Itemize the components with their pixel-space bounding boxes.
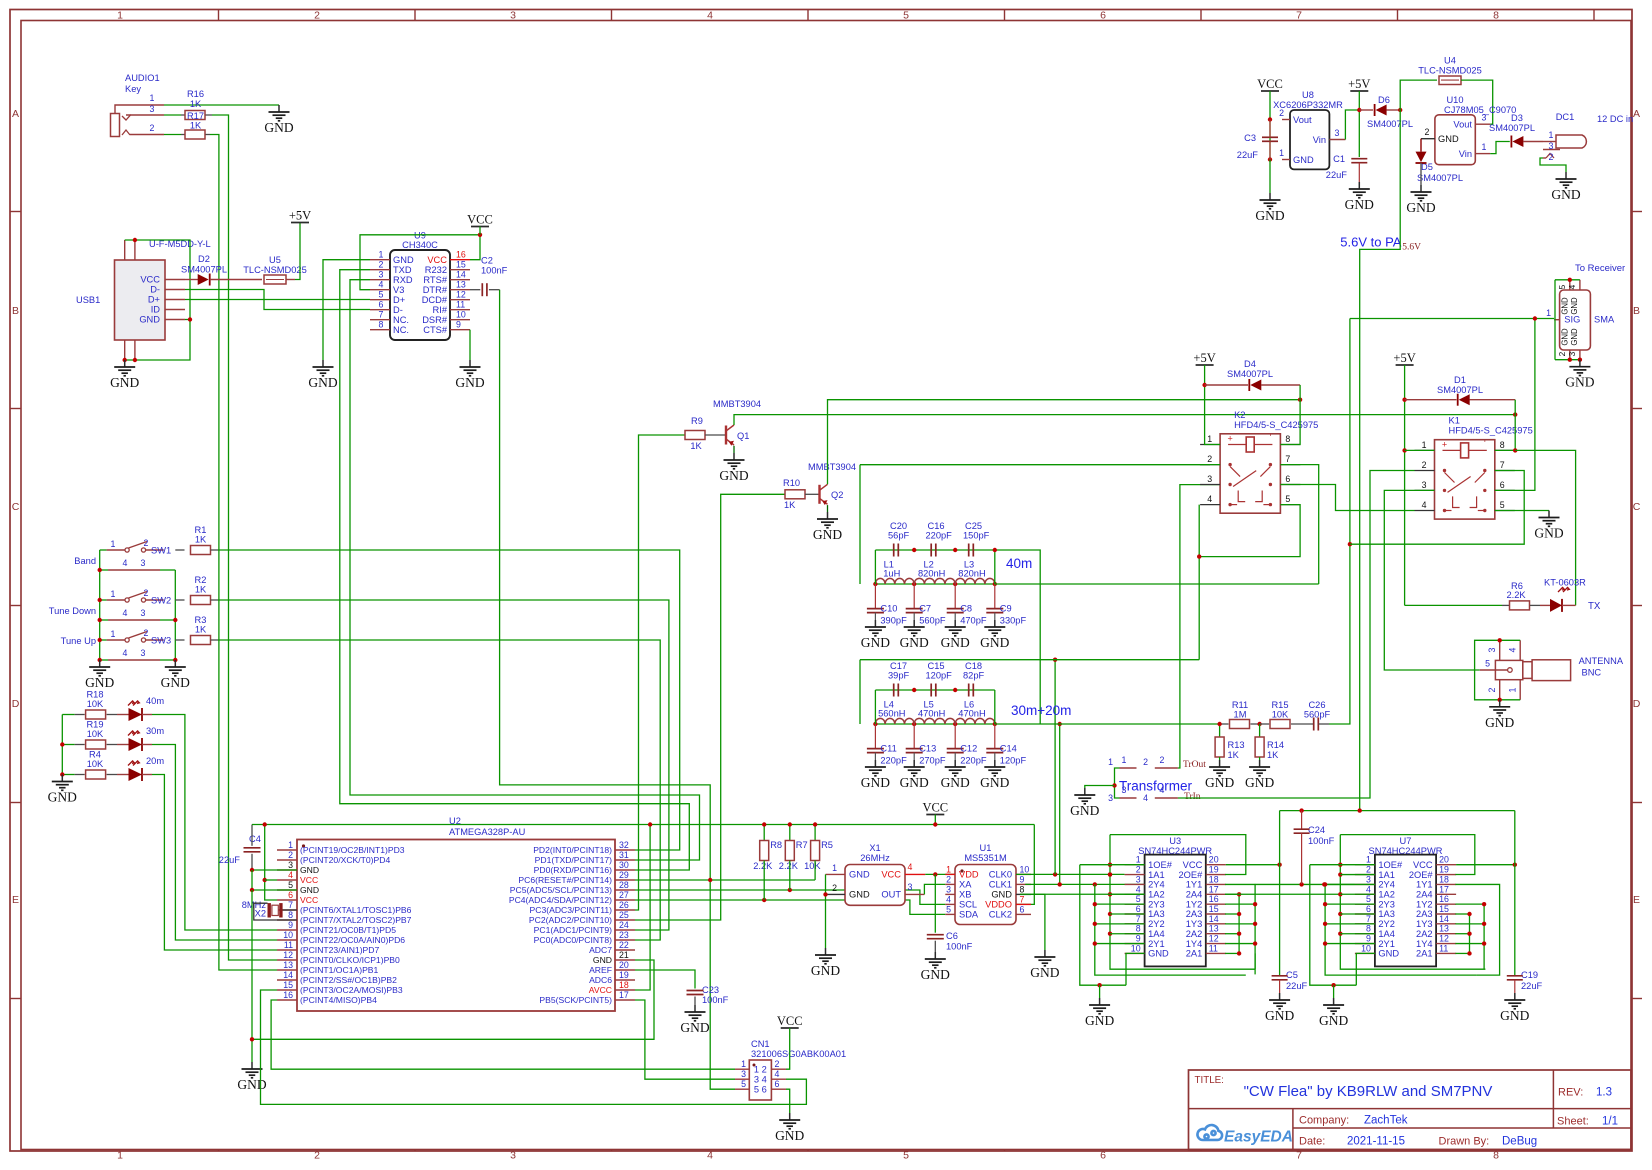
svg-text:2Y2: 2Y2 [1148,919,1165,929]
wire U4 to U10 Vout [1461,80,1493,124]
wire U10 Vin to D3 [1490,142,1510,154]
ground U9 pin1 [322,360,324,367]
ground C23 [694,1005,696,1012]
svg-text:16: 16 [283,990,293,1000]
svg-text:1.3: 1.3 [1596,1087,1612,1099]
inductor L5 [914,718,955,724]
svg-text:5: 5 [1500,500,1505,510]
svg-text:R9: R9 [691,416,703,426]
wire K2 pin4 to filter input [1198,505,1200,660]
svg-text:GND: GND [1245,775,1274,790]
wire U3 enable bus [1080,865,1126,986]
svg-text:5: 5 [946,904,951,914]
svg-text:4: 4 [1143,793,1148,803]
svg-text:321006SG0ABK00A01: 321006SG0ABK00A01 [751,1049,846,1059]
svg-text:C3: C3 [1244,133,1256,143]
wire 30m right riser [994,690,996,724]
svg-text:C5: C5 [1286,970,1298,980]
svg-text:GND: GND [237,1077,266,1092]
svg-text:C25: C25 [965,521,982,531]
svg-text:(PCINT23/AIN1)PD7: (PCINT23/AIN1)PD7 [300,945,379,955]
wire K1 pin7 to receiver tap [1350,471,1524,545]
svg-text:GND: GND [1378,949,1399,959]
wire K2 pin2 from filter [1200,464,1220,466]
ground K1 pin5 [1548,511,1550,518]
svg-text:7: 7 [1296,10,1302,22]
wire K1 pin8 to TX led [1515,450,1575,605]
svg-text:6: 6 [1285,474,1290,484]
wire 40m top row extension [995,550,1040,724]
svg-text:B: B [12,305,19,317]
svg-text:3: 3 [1207,474,1212,484]
svg-text:RI#: RI# [433,305,448,315]
svg-text:AUDIO1: AUDIO1 [125,73,160,83]
svg-text:8: 8 [1493,10,1499,22]
wire U7 output bus [1325,884,1476,975]
svg-text:VCC: VCC [777,1014,803,1028]
svg-text:1A3: 1A3 [1378,909,1395,919]
svg-text:C1: C1 [1333,154,1345,164]
wire U7 gnd pin10 [1356,953,1375,985]
svg-text:GND: GND [1565,375,1594,390]
wire U3 right bus a [1238,894,1240,954]
svg-text:GND: GND [849,890,870,900]
svg-text:(PCINT21/OC0B/T1)PD5: (PCINT21/OC0B/T1)PD5 [300,925,396,935]
wire K1 pin6 to SMA [1495,319,1535,491]
svg-text:3: 3 [288,860,293,870]
svg-text:10K: 10K [1272,710,1289,720]
svg-text:24: 24 [619,920,629,930]
svg-text:Band: Band [74,556,96,566]
svg-text:16: 16 [1439,894,1449,904]
svg-text:29: 29 [619,870,629,880]
svg-text:DTR#: DTR# [423,285,448,295]
wire USB GND pin to shield [185,319,190,321]
svg-text:VCC: VCC [1257,77,1283,91]
svg-text:PC2(ADC2/PCINT10): PC2(ADC2/PCINT10) [529,915,612,925]
svg-text:GND: GND [139,315,160,325]
wire USB shield loop [125,240,190,360]
svg-text:2A4: 2A4 [1186,889,1203,899]
svg-text:GND: GND [1148,949,1169,959]
svg-text:GND: GND [1030,965,1059,980]
svg-text:11: 11 [456,300,465,310]
svg-text:100nF: 100nF [1308,836,1335,846]
svg-text:11: 11 [1439,943,1448,953]
capacitor C13 [913,724,915,749]
switch SW3 lower contact [108,659,160,661]
svg-text:17: 17 [1439,884,1449,894]
svg-text:PC5(ADC5/SCL/PCINT13): PC5(ADC5/SCL/PCINT13) [510,885,612,895]
svg-text:R232: R232 [425,265,447,275]
svg-text:3: 3 [1482,113,1487,123]
svg-text:2: 2 [1136,865,1141,875]
svg-text:Tune Up: Tune Up [61,636,96,646]
wire K1 pin5 to ground [1495,510,1549,512]
wire 30m input from K2 pins 4 5 [859,660,861,724]
svg-text:5: 5 [288,880,293,890]
ground switches right [174,660,176,667]
svg-text:3: 3 [1122,785,1127,795]
svg-text:NC.: NC. [393,315,409,325]
svg-text:GND: GND [861,775,890,790]
led 40m R18 [117,714,129,716]
svg-text:6: 6 [288,890,293,900]
svg-text:3 4: 3 4 [754,1075,767,1085]
svg-text:5: 5 [1285,494,1290,504]
svg-text:56pF: 56pF [888,531,910,541]
wire MCU PC2 to R10 [635,494,785,920]
svg-text:20: 20 [1209,855,1219,865]
wire reset to CN1 pin5 [710,880,735,1089]
svg-text:1K: 1K [690,441,702,451]
svg-text:4: 4 [707,10,713,22]
svg-text:Q1: Q1 [737,431,749,441]
svg-text:NC.: NC. [393,325,409,335]
svg-text:1: 1 [111,539,116,549]
svg-text:8: 8 [1285,434,1290,444]
svg-text:2: 2 [314,1150,320,1162]
svg-text:1: 1 [117,1150,123,1162]
svg-text:SW1: SW1 [151,546,171,556]
svg-text:GND: GND [1085,1013,1114,1028]
svg-text:R13: R13 [1228,740,1245,750]
svg-text:AVCC: AVCC [589,985,612,995]
svg-text:12: 12 [1439,934,1449,944]
capacitor C11 [874,724,876,749]
svg-text:2: 2 [946,874,951,884]
svg-text:1K: 1K [1228,750,1240,760]
svg-text:1: 1 [1549,130,1554,140]
svg-text:DSR#: DSR# [422,315,448,325]
svg-text:(PCINT0/CLKO/ICP1)PB0: (PCINT0/CLKO/ICP1)PB0 [300,955,400,965]
svg-text:D+: D+ [148,295,160,305]
svg-text:1: 1 [288,840,293,850]
svg-text:VCC: VCC [427,255,447,265]
svg-text:2: 2 [1425,127,1430,137]
ground C14 [994,760,996,767]
svg-text:2Y3: 2Y3 [1148,899,1165,909]
wire 40m right riser [994,550,996,584]
svg-text:4: 4 [1160,785,1165,795]
svg-text:K1: K1 [1449,416,1460,426]
svg-text:7: 7 [1366,914,1371,924]
svg-text:RXD: RXD [393,275,413,285]
svg-text:CH340C: CH340C [402,240,438,250]
svg-text:18: 18 [619,980,629,990]
svg-text:PD0(RXD/PCINT16): PD0(RXD/PCINT16) [534,865,612,875]
ground R14 [1259,760,1261,767]
svg-text:220pF: 220pF [926,531,953,541]
svg-text:Vin: Vin [1313,135,1326,145]
wire MCU MISO to CN1 pin1 [271,1000,735,1069]
svg-text:SMA: SMA [1594,315,1615,325]
svg-text:1Y1: 1Y1 [1416,880,1433,890]
svg-text:1M: 1M [1234,710,1247,720]
wire U8 gnd down [1269,160,1271,194]
svg-text:(PCINT3/OC2A/MOSI)PB3: (PCINT3/OC2A/MOSI)PB3 [300,985,403,995]
svg-text:GND: GND [921,967,950,982]
svg-text:Q2: Q2 [831,490,843,500]
svg-text:(PCINT4/MISO)PB4: (PCINT4/MISO)PB4 [300,995,377,1005]
svg-text:14: 14 [456,270,466,280]
svg-text:8: 8 [1366,924,1371,934]
svg-text:1: 1 [1108,757,1113,767]
wire VCC rail above MCU [252,824,1034,826]
ground U7 [1333,998,1335,1005]
svg-text:D-: D- [393,305,403,315]
svg-text:3: 3 [1136,874,1141,884]
svg-text:12 DC in: 12 DC in [1597,114,1633,124]
svg-text:100nF: 100nF [481,266,508,276]
svg-text:470pF: 470pF [960,616,987,626]
wire U7 right bus a [1469,914,1471,954]
svg-text:D+: D+ [393,295,405,305]
svg-text:ANTENNA: ANTENNA [1579,656,1624,666]
svg-text:C6: C6 [946,931,958,941]
svg-text:PC4(ADC4/SDA/PCINT12): PC4(ADC4/SDA/PCINT12) [509,895,612,905]
ground below MCU [251,1062,253,1069]
svg-text:1: 1 [1508,687,1518,692]
wire U7 gnd flag drop [1333,985,1335,998]
svg-text:18: 18 [1439,874,1449,884]
svg-text:2: 2 [379,260,384,270]
svg-text:SM4007PL: SM4007PL [1437,385,1483,395]
svg-text:C8: C8 [960,604,972,614]
svg-text:11: 11 [1209,943,1218,953]
svg-text:1A3: 1A3 [1148,909,1165,919]
svg-text:26MHz: 26MHz [860,853,890,863]
svg-text:5: 5 [1136,894,1141,904]
svg-text:150pF: 150pF [963,531,990,541]
svg-text:9: 9 [1366,934,1371,944]
svg-text:VCC: VCC [1183,860,1203,870]
svg-text:R2: R2 [195,575,207,585]
wire X1 VCC to U1 VDD [925,873,955,875]
svg-text:D-: D- [150,285,160,295]
easyeda logo [1197,1125,1222,1140]
svg-text:C26: C26 [1308,700,1325,710]
svg-text:22uF: 22uF [1286,981,1308,991]
svg-text:2: 2 [1557,351,1567,356]
svg-text:SCL: SCL [959,900,977,910]
svg-text:+5V: +5V [1193,351,1215,365]
wire C4 to MCU gnd pins [252,869,297,871]
svg-text:7: 7 [379,310,384,320]
wire 30m series cap row [875,689,994,691]
svg-text:4: 4 [123,608,128,618]
svg-text:SDA: SDA [959,910,979,920]
svg-text:+5V: +5V [1348,77,1370,91]
svg-text:MMBT3904: MMBT3904 [713,399,761,409]
svg-text:SW2: SW2 [151,596,171,606]
svg-text:5: 5 [1557,284,1567,289]
svg-text:19: 19 [619,970,629,980]
svg-text:23: 23 [619,930,629,940]
ground BNC [1499,700,1501,707]
svg-text:2A3: 2A3 [1416,909,1433,919]
svg-text:U9: U9 [414,231,426,241]
ground U8 [1269,193,1271,200]
wire 40m inductor row [875,583,994,585]
svg-text:CJ78M05_C9070: CJ78M05_C9070 [1444,105,1516,115]
wire K1 pin1 coil [1405,449,1435,451]
svg-text:USB1: USB1 [76,295,100,305]
wire 40m left riser [874,550,876,584]
svg-text:2A2: 2A2 [1416,929,1433,939]
svg-text:15: 15 [283,980,293,990]
svg-text:1K: 1K [195,625,207,635]
wire U3 VCC [1226,864,1280,866]
wire Q2 emitter to ground [827,505,829,512]
wire switch common left [99,550,101,660]
svg-text:GND: GND [1485,715,1514,730]
capacitor C8 [954,584,956,609]
wire C26 to receiver tap [1329,319,1350,725]
svg-text:R11: R11 [1232,700,1248,710]
wire MCU reset row [635,879,815,881]
svg-text:C20: C20 [890,521,907,531]
svg-text:5.6V to PA: 5.6V to PA [1340,235,1402,250]
svg-text:GND: GND [1345,197,1374,212]
wire U3 output bus [1095,884,1246,975]
svg-text:1Y3: 1Y3 [1416,919,1433,929]
svg-text:1: 1 [1546,308,1551,318]
wire led resistors common [61,715,63,775]
svg-text:4: 4 [1366,884,1371,894]
svg-text:9: 9 [288,920,293,930]
led 30m R19 [117,744,129,746]
svg-text:22uF: 22uF [1521,981,1543,991]
wire U7 enable bus [1310,865,1357,986]
svg-text:VCC: VCC [300,895,318,905]
svg-text:MS5351M: MS5351M [964,853,1006,863]
svg-text:(PCINT22/OC0A/AIN0)PD6: (PCINT22/OC0A/AIN0)PD6 [300,935,405,945]
svg-text:30: 30 [619,860,629,870]
svg-text:2Y1: 2Y1 [1148,939,1165,949]
wire U3 right return [1254,953,1256,969]
wire +5V to K2 coil [1205,365,1221,445]
svg-text:E: E [12,894,19,906]
svg-text:R15: R15 [1271,700,1288,710]
svg-text:10: 10 [1020,864,1030,874]
svg-text:3: 3 [908,882,913,892]
svg-text:K2: K2 [1234,410,1245,420]
wire U7 input bus [1340,835,1485,970]
svg-text:XB: XB [959,890,971,900]
svg-text:2: 2 [1366,865,1371,875]
svg-text:22uF: 22uF [1237,150,1259,160]
capacitor C16 [930,544,932,557]
svg-text:16: 16 [456,250,466,260]
wire X1 gnd pins [825,874,827,948]
svg-text:TLC-NSMD025: TLC-NSMD025 [243,265,307,275]
wire U8 Vin to +5V node [1345,110,1359,140]
svg-text:Transformer: Transformer [1119,779,1193,794]
wire K2 pin7 to 40m output [1280,465,1318,584]
svg-text:6: 6 [1500,480,1505,490]
svg-text:470nH: 470nH [918,709,945,719]
svg-text:SM4007PL: SM4007PL [1367,119,1413,129]
svg-text:X1: X1 [869,843,880,853]
ground leds [61,775,63,782]
svg-text:ADC6: ADC6 [589,975,612,985]
svg-text:1: 1 [1422,440,1427,450]
wire U9 pin1 GND [323,260,370,360]
svg-text:C12: C12 [960,744,977,754]
svg-text:4: 4 [1508,647,1518,652]
svg-text:1K: 1K [195,585,207,595]
svg-text:GND: GND [85,675,114,690]
svg-text:2A1: 2A1 [1416,949,1433,959]
svg-text:560pF: 560pF [919,616,946,626]
wire MCU MOSI to CN1 pin4 [261,990,807,1104]
svg-text:2: 2 [1207,454,1212,464]
svg-text:R14: R14 [1267,740,1284,750]
svg-text:C13: C13 [919,744,936,754]
svg-text:7: 7 [1285,454,1290,464]
svg-text:R19: R19 [86,720,103,730]
wire 30m left riser [874,690,876,724]
svg-text:OUT: OUT [881,890,901,900]
svg-text:11: 11 [284,940,293,950]
svg-text:VCC: VCC [300,875,318,885]
svg-text:3: 3 [141,648,146,658]
svg-text:CTS#: CTS# [423,325,448,335]
svg-text:3: 3 [141,558,146,568]
wire U9 RXD to MCU [350,280,700,860]
svg-text:22uF: 22uF [1326,170,1348,180]
svg-text:GND: GND [455,375,484,390]
svg-text:+: + [1227,434,1232,444]
svg-text:2: 2 [144,588,149,598]
switch SW1 lower contact [108,569,160,571]
wire 30m inductor row [875,723,994,725]
svg-text:13: 13 [283,960,293,970]
svg-text:1K: 1K [1267,750,1279,760]
svg-text:330pF: 330pF [1000,616,1027,626]
svg-text:1: 1 [1279,148,1284,158]
svg-text:GND: GND [775,1128,804,1143]
svg-text:GND: GND [300,865,319,875]
ground C9 [994,620,996,627]
svg-text:2A2: 2A2 [1186,929,1203,939]
svg-text:10K: 10K [804,861,821,871]
svg-text:U3: U3 [1169,836,1181,846]
wire C2 to reset line [500,290,711,880]
svg-text:GND: GND [900,775,929,790]
wire MCU pin21 gnd [252,960,654,1039]
svg-text:14: 14 [283,970,293,980]
svg-text:12: 12 [283,950,293,960]
svg-text:R10: R10 [783,478,800,488]
svg-text:39pF: 39pF [888,671,910,681]
svg-text:2: 2 [314,10,320,22]
wire 30m output row to R11 [995,723,1220,725]
svg-text:PC1(ADC1/PCINT9): PC1(ADC1/PCINT9) [534,925,612,935]
wire U3 input bus [1110,835,1255,970]
svg-text:2: 2 [832,883,837,893]
svg-text:R7: R7 [796,840,808,850]
led 20m R4 [117,774,129,776]
svg-text:25: 25 [619,910,629,920]
svg-text:6: 6 [1020,904,1025,914]
svg-text:2: 2 [288,850,293,860]
svg-text:1: 1 [832,863,837,873]
svg-text:10: 10 [456,310,466,320]
wire CLK0 to U3 input [1016,873,1124,875]
svg-text:Date:: Date: [1299,1136,1325,1148]
